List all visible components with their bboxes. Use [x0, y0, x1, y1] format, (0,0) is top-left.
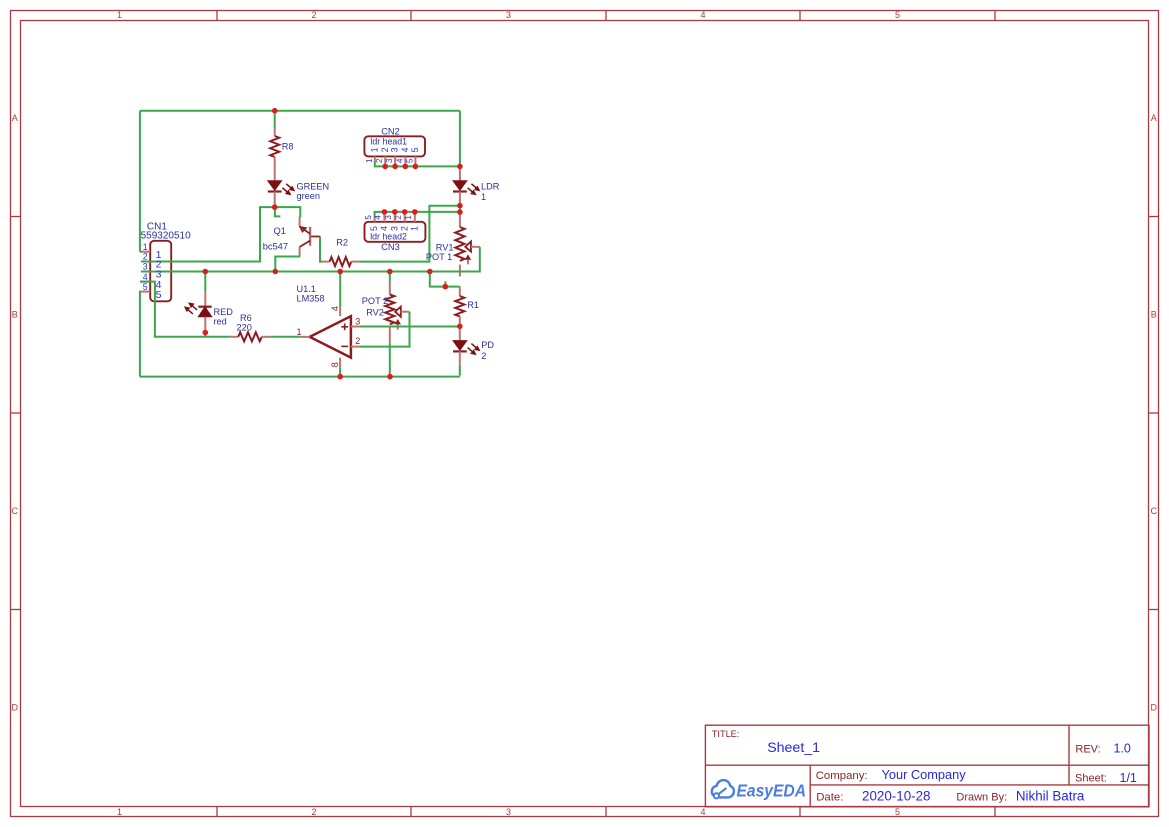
node CN2 pin2 — [382, 164, 388, 170]
svg-text:5: 5 — [156, 289, 162, 301]
potentiometer RV1 POT 1 body — [455, 214, 480, 277]
wire op-amp plus input to R1/PD node — [359, 326, 460, 328]
node CN3 pin3 — [392, 209, 398, 215]
title block labels — [712, 729, 1107, 804]
svg-text:PD: PD — [481, 340, 494, 350]
node jog rail — [427, 269, 433, 275]
resistor R6 220 body — [230, 332, 270, 341]
label RED red — [214, 307, 234, 326]
svg-text:3: 3 — [385, 158, 394, 163]
svg-text:C: C — [12, 506, 19, 516]
svg-text:8: 8 — [330, 362, 340, 367]
svg-text:1: 1 — [117, 807, 122, 817]
svg-text:POT 1: POT 1 — [426, 252, 452, 262]
LED PD body — [453, 326, 479, 365]
label R6 220 — [237, 313, 252, 333]
svg-text:3: 3 — [355, 316, 360, 326]
svg-text:4: 4 — [700, 807, 705, 817]
pin names CN3 — [369, 226, 419, 231]
svg-text:3: 3 — [506, 807, 511, 817]
label Q1 bc547 — [263, 226, 288, 252]
LED RED body — [185, 292, 212, 332]
svg-text:LM358: LM358 — [297, 293, 325, 303]
wire op-amp V+ pin to pin3 rail — [339, 272, 341, 308]
svg-text:R2: R2 — [336, 237, 348, 247]
svg-text:Q1: Q1 — [274, 226, 286, 236]
svg-text:Your Company: Your Company — [882, 767, 967, 782]
svg-text:5: 5 — [364, 215, 373, 220]
svg-text:1: 1 — [409, 226, 419, 231]
svg-text:Drawn By:: Drawn By: — [956, 792, 1007, 804]
svg-text:POT 2: POT 2 — [362, 296, 388, 306]
svg-text:Company:: Company: — [816, 770, 868, 782]
wire LDR junction to R2 — [360, 206, 460, 262]
svg-text:559320510: 559320510 — [141, 230, 191, 241]
connector CN2 ldr head1 body — [364, 136, 425, 166]
op-amp U1.1 LM358 body — [300, 307, 359, 367]
svg-text:4: 4 — [143, 272, 148, 282]
node op-amp V- bottom — [337, 374, 343, 380]
potentiometer RV2 POT 2 body — [385, 282, 409, 342]
svg-text:ldr head2: ldr head2 — [370, 232, 407, 242]
label LDR 1 — [481, 182, 500, 203]
svg-text:1/1: 1/1 — [1120, 771, 1137, 785]
svg-text:2: 2 — [394, 215, 403, 220]
svg-text:3: 3 — [384, 215, 393, 220]
wire GREEN cathode node to Q1 emitter — [275, 207, 301, 217]
node CN3 pin1 — [412, 209, 418, 215]
svg-text:4: 4 — [379, 226, 389, 231]
svg-text:1: 1 — [369, 147, 379, 152]
svg-text:2: 2 — [143, 252, 148, 262]
label U1.1 LM358 — [297, 284, 325, 303]
node RV2 bottom — [387, 374, 393, 380]
pin numbers CN2 — [365, 158, 415, 163]
node CN2 pin5 — [413, 164, 419, 170]
svg-text:LDR: LDR — [481, 182, 500, 192]
svg-text:1: 1 — [297, 327, 302, 337]
label PD 2 — [481, 340, 494, 361]
svg-text:D: D — [1151, 703, 1158, 713]
node GREEN cathode — [272, 204, 278, 210]
label RV1 POT 1 — [426, 243, 454, 262]
node Q1 collector rail — [273, 269, 279, 275]
label POT 2 RV2 — [362, 296, 388, 317]
wire Q1 base to R2 — [320, 237, 322, 262]
svg-text:D: D — [12, 703, 19, 713]
node R8 top — [272, 108, 278, 114]
wire op-amp minus input to RV2 wiper — [359, 312, 409, 347]
svg-text:TITLE:: TITLE: — [712, 729, 740, 739]
title block frame — [705, 725, 1149, 807]
svg-text:A: A — [1151, 113, 1157, 123]
svg-text:1.0: 1.0 — [1114, 741, 1131, 755]
label CN2 — [370, 126, 407, 146]
svg-text:2: 2 — [380, 147, 390, 152]
svg-text:5: 5 — [895, 10, 900, 20]
svg-text:2: 2 — [311, 10, 316, 20]
pin numbers CN3 — [364, 215, 413, 220]
node stub — [443, 284, 449, 290]
svg-text:Sheet_1: Sheet_1 — [767, 740, 820, 756]
svg-text:1: 1 — [143, 242, 148, 252]
wire right rail — [459, 111, 461, 167]
wire CN1 pin5 to bottom rail — [140, 292, 141, 377]
svg-text:1: 1 — [365, 158, 374, 163]
svg-text:R8: R8 — [282, 142, 294, 152]
wire CN3 pins bus — [375, 212, 460, 217]
wire CN2 pins bus — [375, 162, 460, 167]
svg-text:4: 4 — [700, 10, 705, 20]
svg-text:3: 3 — [506, 10, 511, 20]
LED GREEN body — [268, 181, 294, 206]
wire stub above jog — [444, 281, 446, 286]
node op-amp V+ rail — [337, 269, 343, 275]
svg-text:2: 2 — [399, 226, 409, 231]
wire RV2 top to pin3 rail — [389, 272, 391, 282]
svg-text:2: 2 — [355, 336, 360, 346]
svg-text:3: 3 — [143, 262, 148, 272]
label CN3 — [370, 232, 407, 252]
svg-text:4: 4 — [374, 215, 383, 220]
pin numbers CN1 — [143, 242, 148, 292]
node RED cathode — [203, 330, 209, 336]
node R1 PD plus — [457, 324, 463, 330]
wire bottom rail — [140, 376, 460, 378]
svg-text:R1: R1 — [467, 300, 479, 310]
node RV2 top rail — [387, 269, 393, 275]
svg-text:2020-10-28: 2020-10-28 — [862, 788, 931, 803]
wire pin3 rail to RED anode — [204, 272, 206, 292]
svg-text:4: 4 — [395, 158, 404, 163]
pin names CN2 — [369, 147, 420, 152]
svg-text:A: A — [12, 113, 18, 123]
wire R6 to op-amp output — [270, 336, 300, 338]
svg-text:4: 4 — [330, 306, 340, 311]
svg-text:1: 1 — [117, 10, 122, 20]
LED LDR body — [453, 166, 479, 205]
svg-text:B: B — [12, 310, 18, 320]
resistor R8 body — [270, 127, 279, 181]
pin numbers U1.1 — [297, 306, 361, 367]
node CN2 pin4 — [403, 164, 409, 170]
node LDR anode — [457, 164, 463, 170]
wire RV2 bottom to bottom rail — [389, 342, 391, 376]
svg-text:5: 5 — [405, 158, 414, 163]
transistor Q1 bc547 body — [300, 217, 321, 257]
svg-text:R6: R6 — [240, 313, 252, 323]
title block values — [767, 740, 1137, 803]
svg-text:REV:: REV: — [1075, 744, 1100, 756]
wire op-amp V- pin to bottom rail — [339, 368, 341, 377]
wire PD cathode to bottom rail — [459, 365, 461, 376]
wire CN1 pin3 rail to RV1 wiper — [141, 247, 480, 272]
svg-text:5: 5 — [369, 226, 379, 231]
svg-text:1: 1 — [404, 215, 413, 220]
wire R8 top — [274, 111, 276, 127]
svg-text:EasyEDA: EasyEDA — [737, 781, 807, 801]
node CN3 pin4 — [382, 209, 388, 215]
svg-text:Date:: Date: — [816, 791, 843, 803]
svg-text:red: red — [214, 316, 227, 326]
svg-text:5: 5 — [143, 282, 148, 292]
svg-text:5: 5 — [895, 807, 900, 817]
svg-text:2: 2 — [311, 807, 316, 817]
svg-text:2: 2 — [375, 158, 384, 163]
svg-text:C: C — [1151, 506, 1158, 516]
resistor R2 body — [321, 257, 361, 266]
svg-text:RV2: RV2 — [366, 307, 384, 317]
wire LDR cathode to RV1 — [459, 206, 461, 214]
svg-text:3: 3 — [389, 226, 399, 231]
svg-text:Nikhil Batra: Nikhil Batra — [1016, 788, 1085, 803]
svg-text:2: 2 — [481, 351, 486, 361]
svg-text:bc547: bc547 — [263, 242, 288, 252]
svg-text:220: 220 — [237, 323, 252, 333]
svg-text:3: 3 — [390, 147, 400, 152]
node LDR cathode lower — [457, 209, 463, 215]
wire stub below GREEN cathode node — [275, 207, 281, 216]
resistor R1 body — [455, 287, 464, 327]
svg-text:B: B — [1151, 310, 1157, 320]
wire left rail to CN1 pin1 — [140, 111, 142, 252]
wire RED cathode to R6 rail — [204, 332, 206, 337]
wire CN1 pin4 to R6 — [140, 282, 230, 337]
wire top rail — [140, 110, 460, 112]
svg-text:CN3: CN3 — [381, 242, 399, 252]
wire Q1 collector to pin3 rail — [275, 257, 300, 271]
EasyEDA logo — [712, 780, 806, 800]
svg-text:CN2: CN2 — [381, 126, 399, 136]
svg-text:4: 4 — [400, 147, 410, 152]
pin names CN1 — [156, 249, 162, 301]
svg-text:Sheet:: Sheet: — [1075, 773, 1107, 785]
svg-text:green: green — [297, 191, 321, 201]
node CN2 pin3 — [392, 164, 398, 170]
node CN3 pin2 — [402, 209, 408, 215]
svg-text:5: 5 — [410, 147, 420, 152]
wire CN1 pin2 to GREEN cathode node — [141, 207, 275, 261]
node RED anode rail — [203, 269, 209, 275]
connector CN3 ldr head2 body — [365, 212, 426, 242]
svg-text:ldr head1: ldr head1 — [370, 137, 407, 147]
svg-text:1: 1 — [481, 192, 486, 202]
label CN1 — [141, 221, 191, 241]
wire pin3 rail jog to R1 — [430, 272, 460, 287]
connector CN1 559320510 body — [141, 241, 171, 301]
node LDR cathode upper — [457, 203, 463, 209]
label GREEN green — [297, 182, 330, 201]
